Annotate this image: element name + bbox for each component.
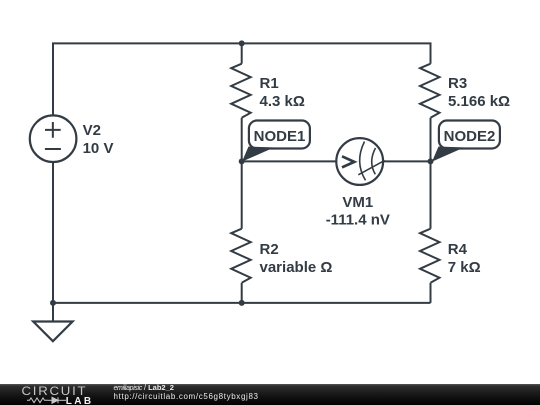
resistor R3 [420, 64, 440, 118]
node junction bottom middle [239, 300, 245, 306]
node junction top middle [239, 40, 245, 46]
svg-text:NODE2: NODE2 [444, 128, 496, 145]
node flag NODE1 [242, 121, 310, 162]
label R4 7 kOhm [448, 241, 481, 276]
wire bottom rail [53, 283, 431, 303]
svg-text:R4: R4 [448, 241, 468, 258]
svg-text:variable Ω: variable Ω [260, 259, 333, 276]
ground [33, 303, 72, 341]
node flag NODE2 [432, 121, 500, 162]
voltmeter VM1 [336, 138, 384, 185]
svg-text:LAB: LAB [66, 396, 94, 405]
svg-text:V2: V2 [83, 122, 101, 139]
wire middle top stub [241, 43, 243, 63]
wire R1 to node A [241, 118, 243, 162]
resistor R1 [231, 64, 251, 118]
wire V2 bottom to bottom rail [52, 162, 54, 303]
svg-text:5.166 kΩ: 5.166 kΩ [448, 93, 510, 110]
label VM1 -111.4 nV [326, 194, 390, 229]
svg-text:-111.4 nV: -111.4 nV [326, 212, 390, 229]
wire R3 to node B [430, 118, 432, 162]
svg-text:NODE1: NODE1 [254, 128, 306, 145]
resistor R2 [231, 229, 251, 283]
wire top rail [53, 43, 431, 116]
label R3 5.166 kOhm [448, 75, 510, 110]
resistor R4 [420, 229, 440, 283]
label R2 variable Ohm [260, 241, 333, 276]
wire node A to R2 [241, 161, 243, 228]
footer bar [0, 384, 540, 405]
wire R2 to bottom rail [241, 283, 243, 303]
label V2 10 V [83, 122, 114, 157]
node junction bottom left [50, 300, 56, 306]
svg-text:4.3 kΩ: 4.3 kΩ [260, 93, 305, 110]
label R1 4.3 kOhm [260, 75, 305, 110]
CircuitLab logo [0, 384, 110, 405]
svg-text:7 kΩ: 7 kΩ [448, 259, 481, 276]
svg-text:R1: R1 [260, 75, 279, 92]
svg-text:VM1: VM1 [342, 194, 373, 211]
voltage source V2 [30, 115, 77, 162]
wire node B to R4 [430, 161, 432, 228]
wire voltmeter to node B [383, 160, 431, 162]
wire node A to voltmeter [242, 160, 337, 162]
footer credit text [114, 383, 414, 385]
svg-text:10 V: 10 V [83, 140, 114, 157]
svg-text:R3: R3 [448, 75, 467, 92]
svg-text:R2: R2 [260, 241, 279, 258]
node B junction dot [428, 158, 434, 164]
node A junction dot [239, 158, 245, 164]
